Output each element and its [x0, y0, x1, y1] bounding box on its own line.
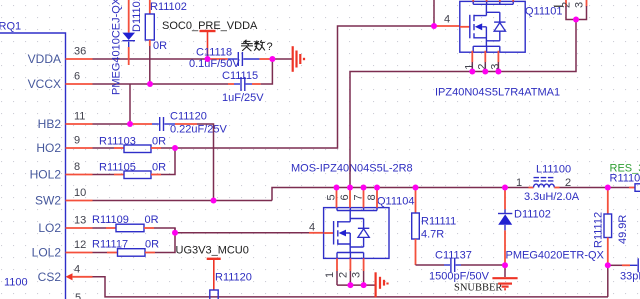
- svg-text:12: 12: [74, 239, 86, 251]
- wire gate stub Q11104: [309, 232, 324, 234]
- svg-text:CS2: CS2: [38, 270, 62, 284]
- Q11101 bottom pin stubs: [472, 51, 498, 62]
- resistor R11120: [210, 272, 252, 299]
- svg-text:C11137: C11137: [435, 250, 472, 262]
- svg-text:UG3V3_MCU0: UG3V3_MCU0: [176, 245, 249, 257]
- svg-text:R11101: R11101: [610, 173, 640, 185]
- svg-text:3: 3: [351, 272, 363, 278]
- power port UG3V3_MCU0: [176, 245, 249, 291]
- svg-text:1: 1: [324, 272, 336, 278]
- wire HO2 net: [93, 147, 115, 149]
- svg-text:13: 13: [74, 215, 86, 227]
- wire SW2 net: [93, 200, 273, 202]
- pin CS2 arrow: [66, 273, 73, 280]
- wire LO2 net: [93, 227, 107, 229]
- resistor R11111: [412, 188, 457, 266]
- svg-text:2: 2: [477, 64, 489, 70]
- svg-text:Q11101: Q11101: [525, 6, 563, 18]
- wire R11102 to VCCX: [149, 46, 151, 84]
- svg-text:2: 2: [338, 272, 350, 278]
- svg-text:4: 4: [309, 222, 315, 234]
- inductor L11100: [516, 164, 580, 204]
- capacitor C11120: [130, 111, 228, 136]
- resistor R11117: [92, 239, 159, 257]
- svg-text:8: 8: [366, 194, 378, 200]
- svg-text:?: ?: [267, 41, 273, 53]
- ground below D11102: [492, 278, 517, 289]
- svg-text:36: 36: [74, 46, 86, 58]
- wire VDDA net: [93, 58, 208, 60]
- svg-text:LO2: LO2: [38, 221, 61, 235]
- svg-text:R11111: R11111: [421, 216, 456, 228]
- wire SW node right of inductor: [560, 187, 630, 189]
- svg-text:33pF: 33pF: [620, 271, 640, 283]
- wire VDDA to C11118 right lead: [259, 58, 272, 60]
- svg-text:SNUBBER: SNUBBER: [454, 283, 502, 294]
- wire HOL2 up to HO2 net: [161, 148, 175, 175]
- svg-text:4: 4: [444, 14, 450, 26]
- wire C11115 riser to VDDA net: [261, 59, 273, 84]
- wire HO2 to gate Q11101: [161, 26, 434, 148]
- resistor R11102: [145, 0, 187, 52]
- svg-text:4: 4: [74, 263, 80, 275]
- wire VCCX to HB2 riser: [129, 84, 131, 124]
- svg-text:HB2: HB2: [38, 117, 62, 131]
- svg-text:SW2: SW2: [35, 194, 61, 208]
- wire R11112 to bottom rail: [607, 265, 609, 297]
- svg-text:3: 3: [490, 64, 502, 70]
- wire Q11101 source down to SW node: [350, 20, 576, 188]
- svg-text:0.1uF/50V: 0.1uF/50V: [189, 58, 240, 70]
- ground at VDDA net: [293, 46, 304, 72]
- svg-text:R11102: R11102: [150, 1, 187, 13]
- svg-text:Q11104: Q11104: [377, 196, 415, 208]
- svg-text:0.22uF/25V: 0.22uF/25V: [170, 124, 228, 136]
- svg-text:1uF/25V: 1uF/25V: [222, 92, 264, 104]
- power port SOC0_PRE_VDDA: [162, 20, 258, 59]
- capacitor C11137: [416, 250, 506, 283]
- svg-text:8: 8: [74, 161, 80, 173]
- wire CS2 net to bottom rail: [93, 277, 609, 297]
- svg-text:0R: 0R: [152, 162, 166, 174]
- svg-text:3.3uH/2.0A: 3.3uH/2.0A: [524, 191, 580, 203]
- svg-text:11: 11: [74, 111, 85, 123]
- wire Q11104 source to ground: [337, 284, 376, 286]
- svg-text:RQ1: RQ1: [0, 21, 21, 33]
- svg-text:PMEG4020ETR-QX: PMEG4020ETR-QX: [506, 250, 605, 262]
- svg-text:6: 6: [74, 71, 80, 83]
- Q11104 top pin stubs: [337, 188, 378, 208]
- svg-text:0R: 0R: [145, 214, 159, 226]
- mosfet Q11104: [324, 208, 389, 259]
- svg-text:1: 1: [464, 64, 476, 70]
- wire HB2 net: [93, 123, 131, 125]
- svg-text:IPZ40N04S5L7R4ATMA1: IPZ40N04S5L7R4ATMA1: [435, 87, 560, 99]
- text 参数? parameter note: [241, 40, 265, 51]
- resistor R11112: [593, 188, 630, 266]
- svg-text:R11103: R11103: [99, 136, 136, 148]
- wire gate riser top: [433, 0, 435, 26]
- svg-text:1: 1: [516, 177, 522, 189]
- svg-text:2: 2: [561, 2, 573, 8]
- svg-text:0R: 0R: [145, 239, 159, 251]
- pin SW2 stub: [66, 200, 93, 202]
- svg-text:5: 5: [326, 194, 338, 200]
- wire gate stub Q11101: [434, 25, 460, 27]
- wire C11120 riser to SW2: [197, 124, 214, 201]
- wire VCCX net: [93, 83, 229, 85]
- svg-text:6: 6: [339, 194, 351, 200]
- svg-text:5: 5: [75, 292, 81, 299]
- svg-text:D11102: D11102: [514, 209, 551, 221]
- svg-text:4.7R: 4.7R: [421, 229, 444, 241]
- svg-text:49.9R: 49.9R: [617, 215, 629, 244]
- wire C11118 to ground: [272, 58, 292, 60]
- wire VDDA to C11118 left lead: [208, 58, 228, 60]
- wire LO2 to gate Q11104: [154, 228, 309, 233]
- svg-text:2: 2: [565, 177, 571, 189]
- Q11101 top-right pins 2 3: [566, 0, 587, 7]
- svg-text:R11105: R11105: [99, 162, 136, 174]
- svg-text:HOL2: HOL2: [30, 168, 62, 182]
- mosfet Q11101: [460, 1, 525, 52]
- wire D11102 to ground: [504, 265, 506, 277]
- svg-text:HO2: HO2: [36, 141, 61, 155]
- svg-text:PMEG4010CEJ-QX: PMEG4010CEJ-QX: [111, 0, 123, 95]
- svg-text:0R: 0R: [152, 136, 166, 148]
- svg-text:10: 10: [74, 187, 86, 199]
- svg-text:C11118: C11118: [196, 47, 232, 59]
- svg-text:VCCX: VCCX: [28, 77, 61, 91]
- capacitor 33pF right edge: [608, 258, 640, 282]
- svg-text:L11100: L11100: [536, 164, 571, 176]
- capacitor C11115: [222, 70, 264, 104]
- svg-text:0R: 0R: [153, 40, 167, 52]
- svg-text:9: 9: [74, 135, 80, 147]
- pin CS2 stub: [72, 276, 93, 278]
- pin HO2 stub: [66, 147, 93, 149]
- svg-text:C11120: C11120: [170, 111, 207, 123]
- svg-text:MOS-IPZ40N04S5L-2R8: MOS-IPZ40N04S5L-2R8: [291, 163, 413, 175]
- ground at Q11104 source: [376, 272, 388, 297]
- svg-text:R11109: R11109: [92, 214, 129, 226]
- Q11104 bottom pin stubs: [337, 258, 364, 271]
- wire LOL2 net: [93, 252, 108, 254]
- svg-text:R11120: R11120: [215, 272, 252, 284]
- Q11101 top stubs: [473, 0, 513, 2]
- wire SW2 step up: [272, 188, 529, 201]
- svg-text:R11112: R11112: [593, 212, 605, 248]
- wire HOL2 net: [93, 174, 115, 176]
- pin VCCX stub: [66, 83, 93, 85]
- wire LOL2 up to LO2 net: [155, 228, 175, 253]
- svg-text:C11115: C11115: [222, 70, 258, 82]
- pin HB2 stub: [66, 123, 93, 125]
- svg-text:1500pF/50V: 1500pF/50V: [429, 271, 490, 283]
- svg-text:3: 3: [574, 2, 586, 8]
- svg-text:LOL2: LOL2: [32, 246, 62, 260]
- svg-text:1100: 1100: [4, 277, 28, 289]
- pin LOL2 stub: [66, 252, 93, 254]
- resistor R11101 right edge: [610, 163, 640, 192]
- pin HOL2 stub: [66, 174, 93, 176]
- diode D11101: [122, 0, 135, 65]
- overline on Q11101: [554, 5, 563, 7]
- svg-text:R11117: R11117: [92, 239, 128, 251]
- svg-text:7: 7: [353, 194, 365, 200]
- resistor R11105: [99, 162, 166, 179]
- capacitor C11118: [189, 47, 259, 71]
- pin LO2 stub: [66, 227, 93, 229]
- resistor R11109: [92, 214, 159, 232]
- svg-text:D11101: D11101: [131, 0, 143, 32]
- diode D11102: [498, 188, 605, 266]
- pin VDDA stub: [66, 58, 93, 60]
- resistor R11103: [99, 136, 166, 153]
- svg-text:VDDA: VDDA: [28, 52, 61, 66]
- IC U1100 box: [0, 33, 66, 299]
